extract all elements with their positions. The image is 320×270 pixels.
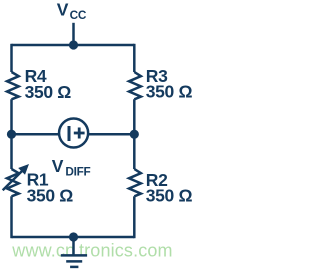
svg-text:350 Ω: 350 Ω bbox=[146, 186, 193, 206]
svg-text:tronics.com: tronics.com bbox=[79, 241, 173, 261]
svg-text:DIFF: DIFF bbox=[65, 165, 90, 179]
svg-text:www.cn: www.cn bbox=[11, 241, 75, 261]
svg-text:350 Ω: 350 Ω bbox=[146, 82, 193, 102]
svg-text:350 Ω: 350 Ω bbox=[25, 82, 72, 102]
svg-text:V: V bbox=[57, 0, 69, 20]
svg-text:V: V bbox=[52, 156, 64, 176]
svg-text:350 Ω: 350 Ω bbox=[27, 186, 74, 206]
svg-text:CC: CC bbox=[70, 8, 87, 22]
